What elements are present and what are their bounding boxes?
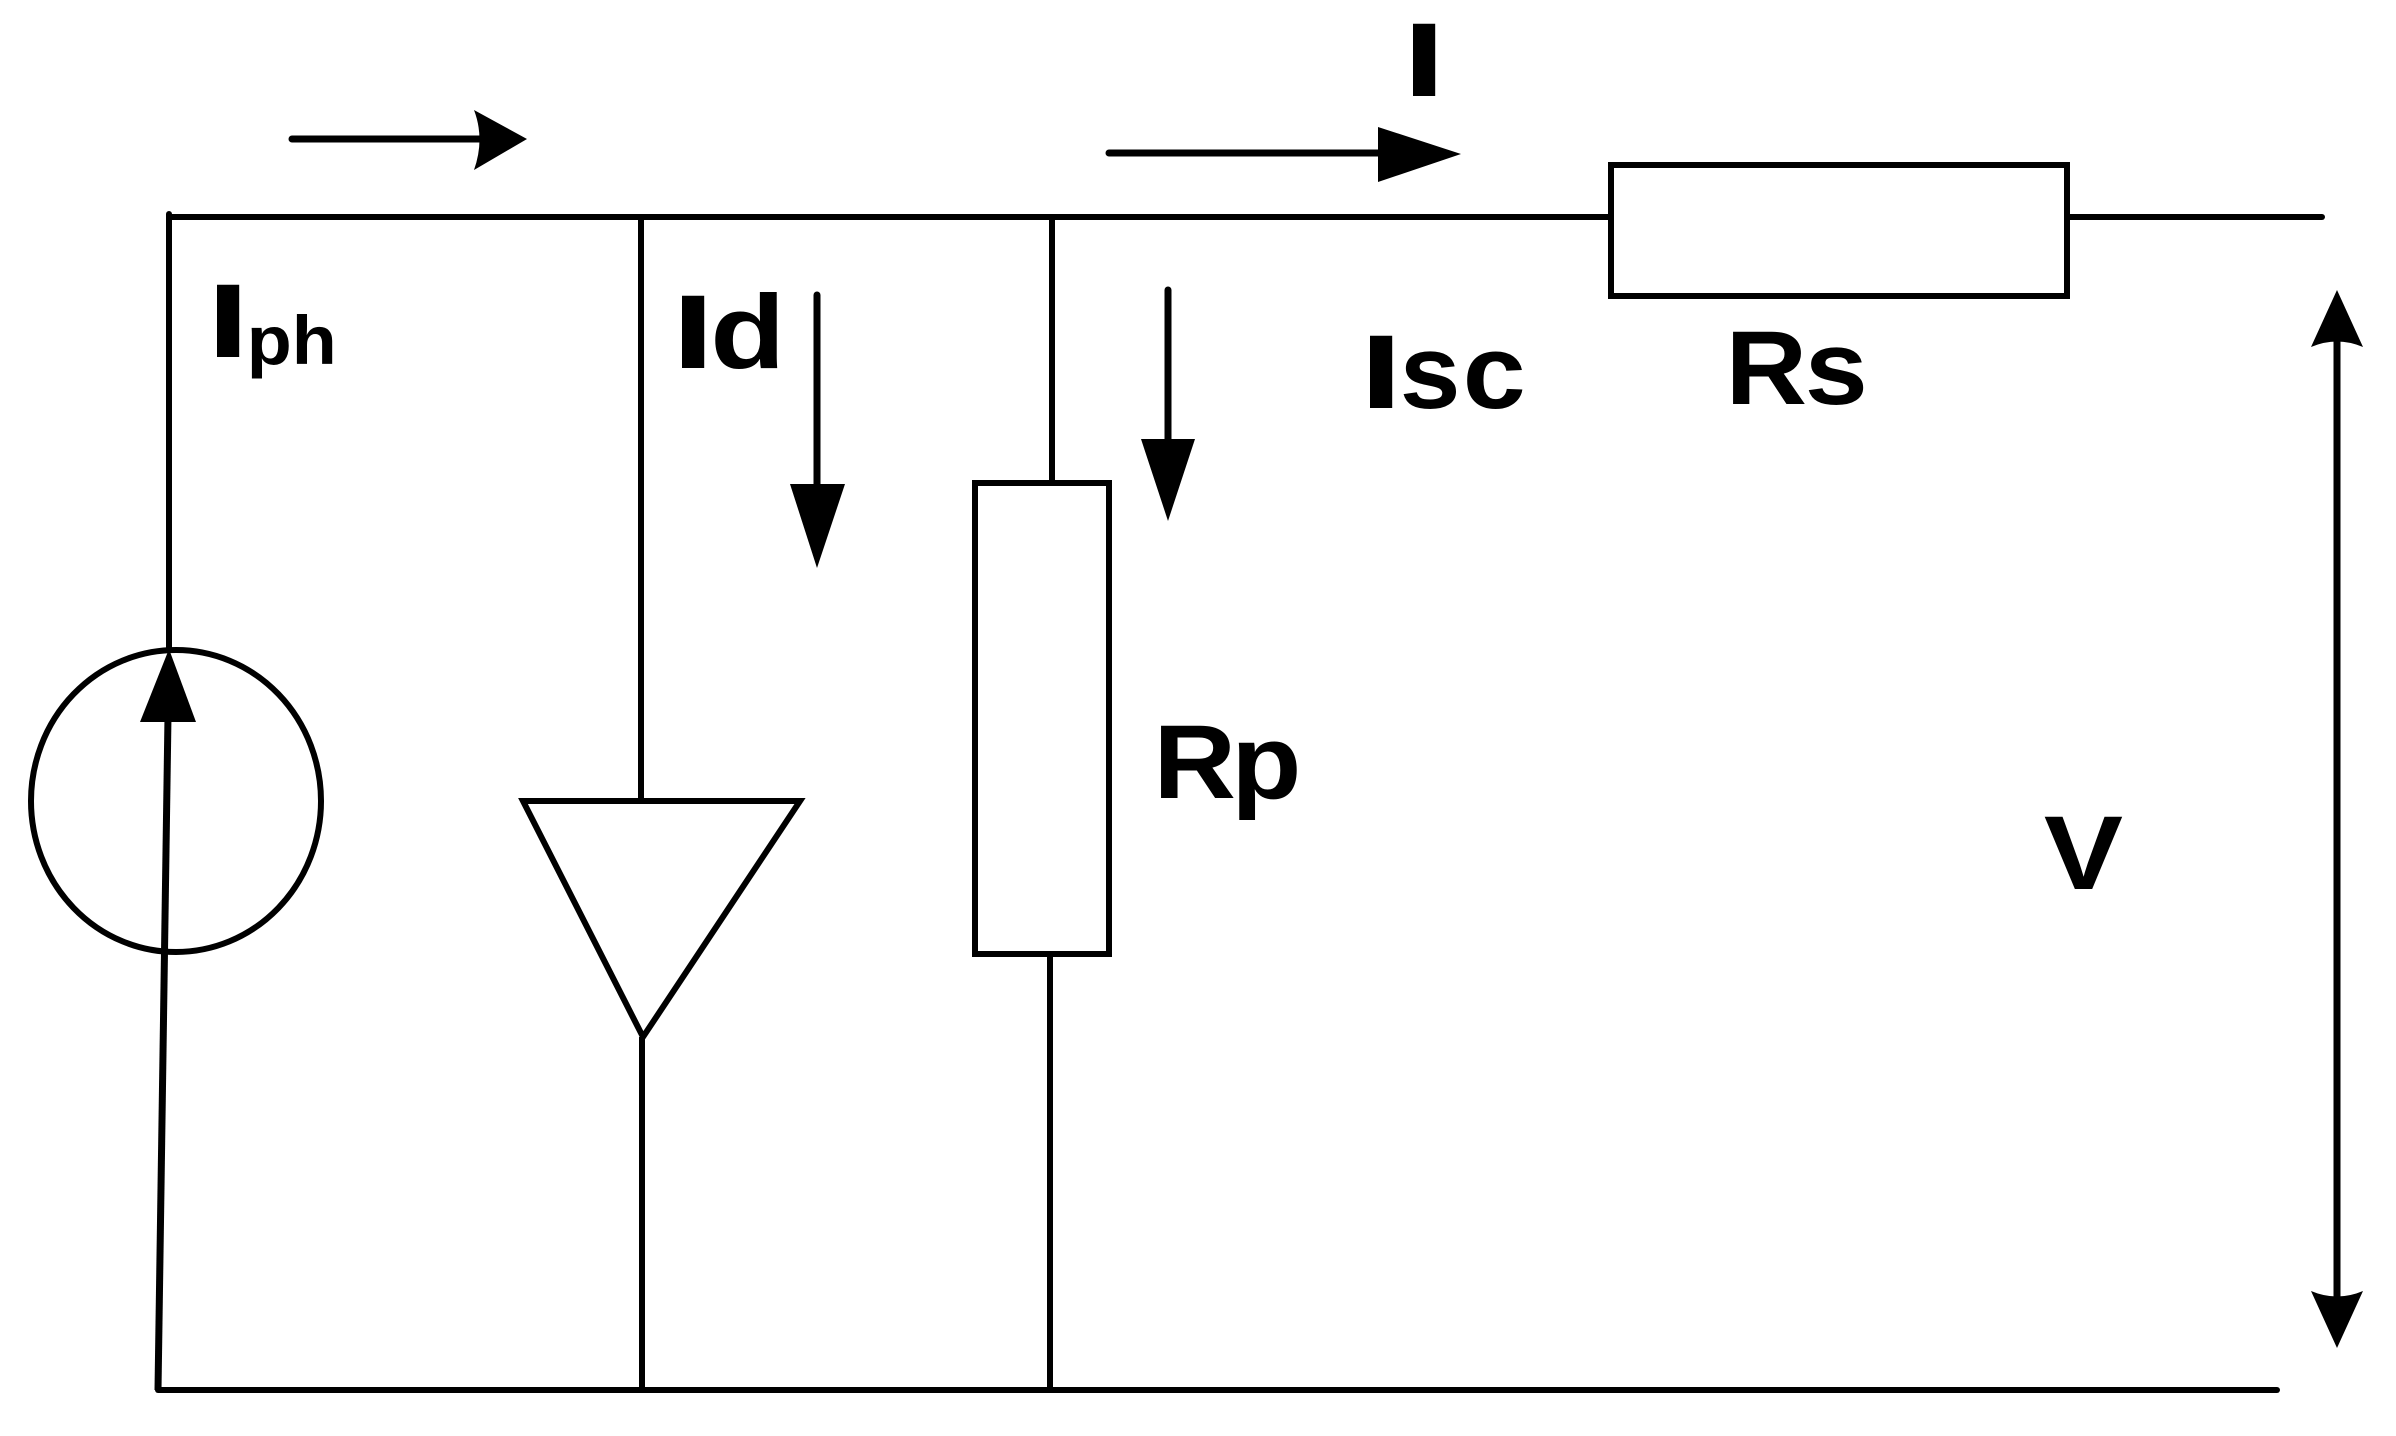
- svg-text:V: V: [2044, 794, 2123, 911]
- wire arrow shaft of current source continuing to bottom bus: [158, 716, 168, 1390]
- arrow Id current direction: [814, 295, 821, 490]
- arrow Iph current direction (top left): [292, 136, 480, 143]
- resistor Rs: [1611, 165, 2067, 296]
- wire Rp branch upper: [1049, 214, 1055, 483]
- arrow V voltage (double headed): [2334, 340, 2341, 1298]
- wire left vertical (top corner to current source): [166, 214, 172, 650]
- svg-text:c: c: [1463, 314, 1526, 431]
- diode D (triangle): [523, 801, 800, 1037]
- svg-text:s: s: [1805, 310, 1868, 427]
- arrow I load current (top middle): [1109, 150, 1390, 157]
- current source Iph (circle): [31, 650, 321, 952]
- svg-text:R: R: [1153, 704, 1236, 821]
- wire Rp branch lower: [1047, 954, 1053, 1390]
- wire diode branch lower: [639, 1037, 645, 1390]
- wire bottom horizontal bus: [158, 1387, 2277, 1393]
- arrowhead inside current source: [140, 649, 196, 722]
- resistor Rp: [975, 483, 1109, 954]
- svg-text:I: I: [207, 262, 250, 379]
- svg-text:I: I: [672, 273, 715, 390]
- svg-text:p: p: [1231, 704, 1301, 821]
- svg-text:s: s: [1400, 313, 1461, 431]
- svg-text:I: I: [1403, 1, 1446, 118]
- svg-text:d: d: [710, 274, 785, 391]
- wire top horizontal bus: [169, 214, 2322, 220]
- svg-text:ph: ph: [247, 302, 337, 379]
- arrow Isc current direction: [1165, 290, 1172, 445]
- svg-text:R: R: [1726, 310, 1808, 427]
- wire diode branch upper: [638, 214, 644, 801]
- svg-text:I: I: [1360, 313, 1403, 430]
